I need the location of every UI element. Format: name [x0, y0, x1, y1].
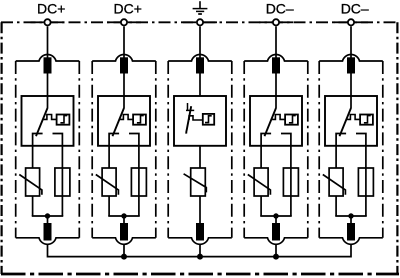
svg-text:DC–: DC– — [266, 1, 294, 17]
svg-text:DC–: DC– — [341, 1, 369, 17]
svg-text:DC+: DC+ — [113, 1, 141, 17]
svg-text:DC+: DC+ — [37, 1, 65, 17]
